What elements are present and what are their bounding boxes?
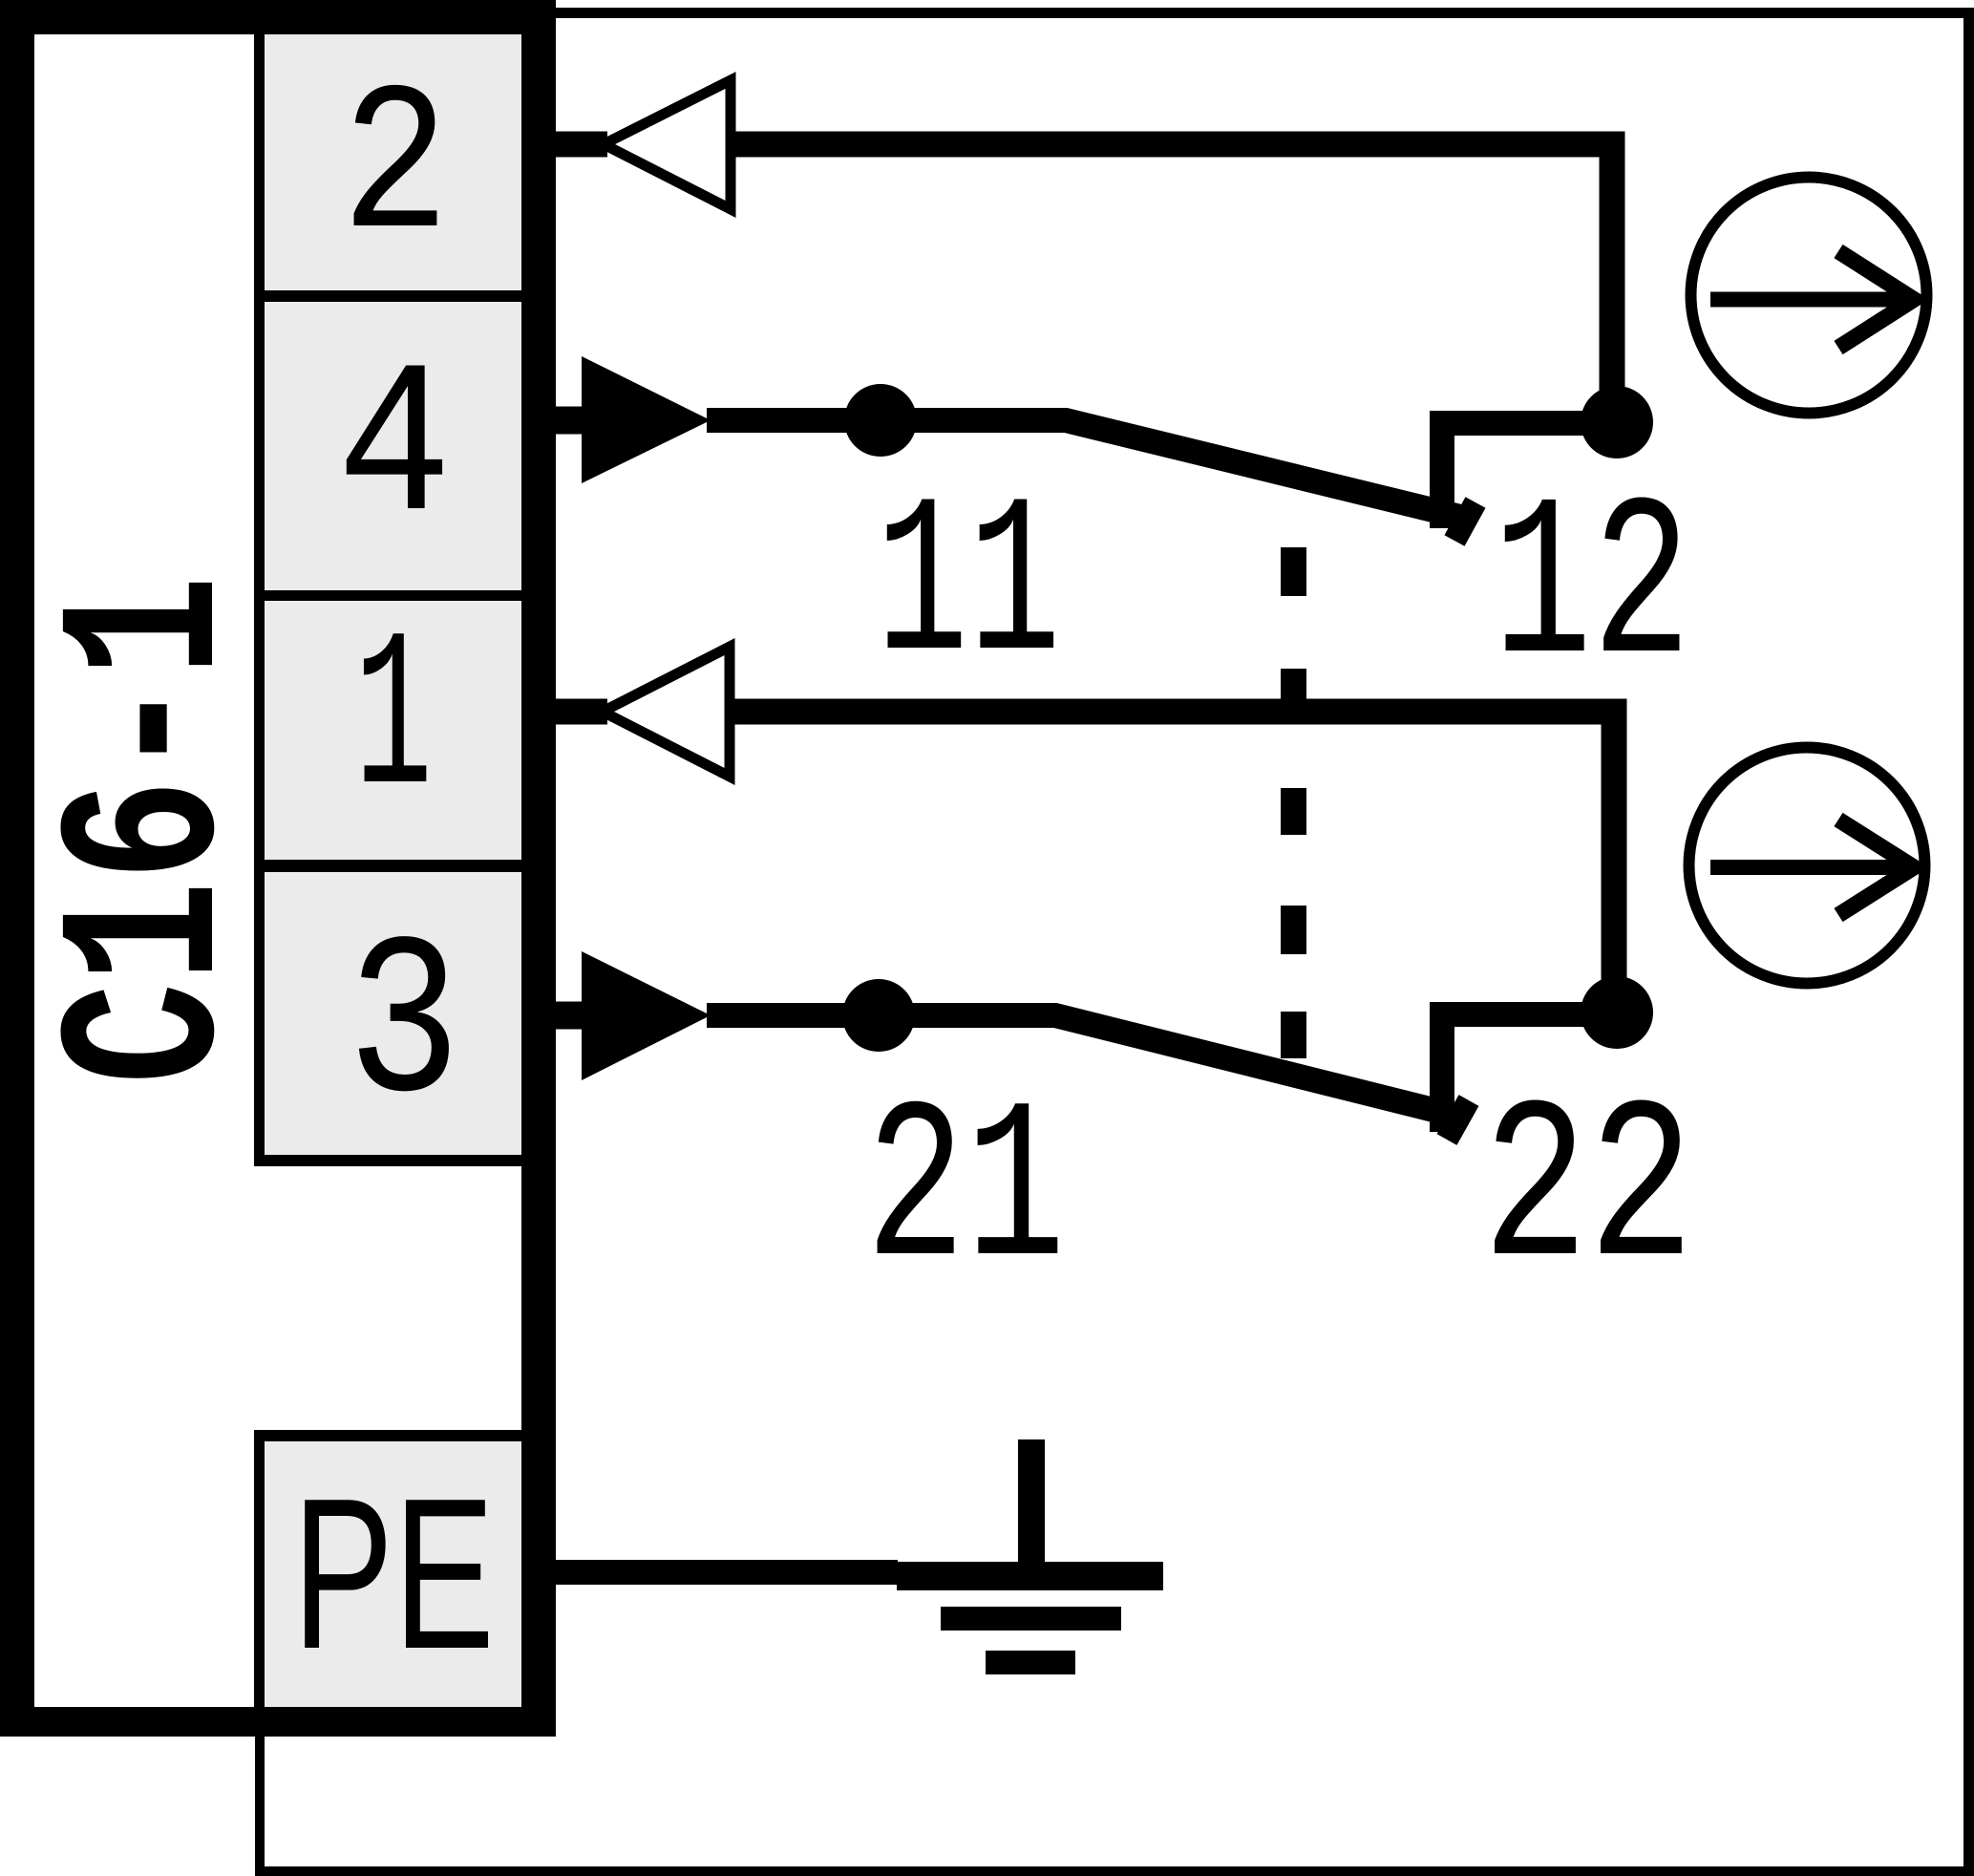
svg-text:4: 4 [337, 330, 453, 574]
wire: terminal 4 lead + contact arm 11-12 [707, 420, 1464, 518]
wire: terminal 3 lead + contact arm 21-22 [707, 1015, 1464, 1118]
separator 2/4 [254, 290, 521, 302]
wire: terminal 1 to junction 22 [726, 712, 1614, 1013]
terminal box 2 [265, 34, 521, 290]
filled arrowhead (terminal 3) [582, 951, 711, 1080]
lower thin vertical line below PE [255, 1737, 265, 1870]
wire: terminal 2 stub [556, 132, 607, 158]
terminal column left border [254, 34, 265, 1166]
svg-text:11: 11 [876, 460, 1061, 715]
terminal box 3 [265, 872, 521, 1155]
terminal box 1 [265, 601, 521, 860]
wire: terminal 1 stub [556, 699, 607, 725]
NC fixed contact 12 (L piece) [1442, 423, 1617, 528]
filled arrowhead (terminal 4) [582, 356, 711, 483]
junction dot 22 [1581, 976, 1653, 1049]
wire: terminal 2 to junction 12 [727, 144, 1612, 422]
separator 1/3 [254, 860, 521, 872]
contact arm tick 12 [1454, 502, 1475, 541]
actuator circle 2 [1689, 748, 1925, 984]
separator 4/1 [254, 590, 521, 601]
connector outer box C16-1 frame [0, 0, 556, 1737]
wire: PE to ground [556, 1560, 898, 1585]
svg-text:12: 12 [1493, 459, 1690, 719]
svg-text:3: 3 [347, 899, 460, 1158]
mechanical link (dashed) [1281, 547, 1306, 1058]
svg-text:PE: PE [292, 1455, 495, 1695]
svg-text:C16-1: C16-1 [24, 575, 280, 1084]
open arrowhead (terminal 1) [603, 647, 730, 777]
svg-text:2: 2 [341, 51, 450, 289]
pivot dot 21 [842, 979, 915, 1052]
actuator arrow 2 [1710, 860, 1900, 875]
pivot dot 11 [844, 384, 917, 457]
ground [897, 1439, 1163, 1674]
svg-text:21: 21 [865, 1064, 1065, 1322]
open arrowhead (terminal 2) [604, 80, 731, 209]
junction dot 12 [1581, 386, 1653, 458]
actuator arrow 1 [1710, 292, 1900, 308]
svg-text:22: 22 [1482, 1064, 1694, 1323]
terminal box 3 bottom border [254, 1155, 521, 1166]
svg-text:1: 1 [354, 594, 433, 849]
wire: terminal 4 stub [556, 407, 587, 435]
NC fixed contact 22 (L piece) [1442, 1014, 1617, 1132]
actuator circle 1 [1691, 178, 1927, 414]
contact arm tick 22 [1447, 1100, 1469, 1140]
wire: terminal 3 stub [556, 1002, 587, 1030]
terminal box 4 [265, 302, 521, 590]
terminal box PE [254, 1430, 521, 1441]
